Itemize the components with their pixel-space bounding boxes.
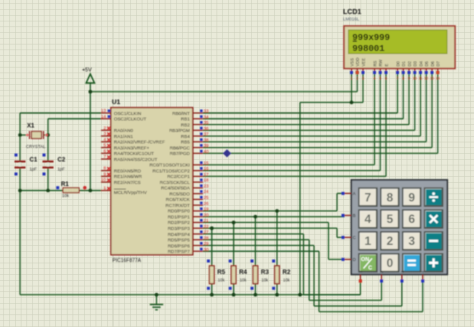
svg-text:7: 7 bbox=[397, 77, 399, 81]
svg-text:RS: RS bbox=[372, 60, 377, 66]
svg-text:RA2/AN2/VREF-/CVREF: RA2/AN2/VREF-/CVREF bbox=[114, 140, 165, 145]
svg-text:R2: R2 bbox=[283, 269, 291, 276]
svg-text:R3: R3 bbox=[261, 269, 269, 276]
svg-text:4: 4 bbox=[103, 137, 106, 142]
svg-text:RE0/AN5/RD: RE0/AN5/RD bbox=[114, 168, 142, 173]
svg-text:LM016L: LM016L bbox=[343, 17, 360, 22]
svg-text:R1: R1 bbox=[61, 182, 69, 188]
svg-text:OSC1/CLKIN: OSC1/CLKIN bbox=[114, 111, 141, 116]
svg-text:VDD: VDD bbox=[355, 58, 360, 67]
svg-text:RB5: RB5 bbox=[181, 140, 190, 145]
svg-text:C: C bbox=[353, 235, 356, 240]
svg-text:20: 20 bbox=[204, 212, 210, 217]
svg-text:RD3/PSP3: RD3/PSP3 bbox=[168, 226, 191, 231]
svg-text:24: 24 bbox=[204, 189, 210, 194]
svg-text:U1: U1 bbox=[112, 99, 121, 106]
svg-text:16: 16 bbox=[204, 166, 210, 171]
svg-text:RD0/PSP0: RD0/PSP0 bbox=[168, 209, 191, 214]
svg-text:23: 23 bbox=[204, 183, 210, 188]
svg-text:+5V: +5V bbox=[82, 68, 92, 74]
svg-text:CRYSTAL: CRYSTAL bbox=[26, 144, 46, 149]
svg-text:2: 2 bbox=[103, 125, 106, 130]
svg-text:RC7/RX/DT: RC7/RX/DT bbox=[166, 203, 190, 208]
svg-text:28: 28 bbox=[204, 235, 210, 240]
svg-text:RC5/SDO: RC5/SDO bbox=[169, 191, 190, 196]
svg-text:RD5/PSP5: RD5/PSP5 bbox=[168, 238, 191, 243]
svg-text:VEE: VEE bbox=[361, 58, 366, 67]
svg-text:4: 4 bbox=[421, 271, 425, 273]
svg-text:LCD1: LCD1 bbox=[343, 9, 361, 16]
svg-text:RC2/CCP1: RC2/CCP1 bbox=[167, 174, 190, 179]
svg-text:6: 6 bbox=[408, 212, 415, 226]
svg-text:25: 25 bbox=[204, 195, 210, 200]
svg-text:8: 8 bbox=[103, 166, 106, 171]
svg-text:2: 2 bbox=[356, 77, 358, 81]
svg-text:3: 3 bbox=[103, 131, 106, 136]
svg-text:36: 36 bbox=[204, 126, 210, 131]
svg-text:RA0/AN0: RA0/AN0 bbox=[114, 128, 134, 133]
svg-text:RE1/AN6/WR: RE1/AN6/WR bbox=[114, 174, 143, 179]
svg-text:10k: 10k bbox=[62, 193, 70, 198]
svg-text:10k: 10k bbox=[261, 278, 269, 283]
svg-text:RC0/T1OSO/T1CKI: RC0/T1OSO/T1CKI bbox=[149, 163, 189, 168]
svg-text:34: 34 bbox=[204, 114, 210, 119]
svg-text:A: A bbox=[353, 191, 356, 196]
svg-text:RB0/INT: RB0/INT bbox=[172, 111, 190, 116]
svg-text:14: 14 bbox=[436, 77, 440, 81]
svg-text:MCLR/Vpp/THV: MCLR/Vpp/THV bbox=[114, 190, 148, 195]
svg-text:D4: D4 bbox=[418, 60, 423, 66]
svg-text:8: 8 bbox=[386, 190, 393, 204]
svg-text:1pF: 1pF bbox=[58, 167, 66, 172]
svg-text:5: 5 bbox=[379, 77, 381, 81]
svg-text:RB4: RB4 bbox=[181, 134, 190, 139]
svg-text:D0: D0 bbox=[395, 60, 400, 66]
svg-text:4: 4 bbox=[374, 77, 376, 81]
svg-text:1: 1 bbox=[351, 77, 353, 81]
svg-text:15: 15 bbox=[204, 160, 210, 165]
svg-text:4: 4 bbox=[365, 212, 372, 226]
svg-text:29: 29 bbox=[204, 241, 210, 246]
svg-text:26: 26 bbox=[204, 201, 210, 206]
svg-text:RA3/AN3/VREF+: RA3/AN3/VREF+ bbox=[114, 145, 150, 150]
svg-text:999x999: 999x999 bbox=[352, 32, 390, 43]
svg-text:2: 2 bbox=[386, 234, 393, 248]
svg-text:14: 14 bbox=[101, 114, 107, 119]
svg-text:18: 18 bbox=[204, 178, 210, 183]
svg-text:10: 10 bbox=[413, 77, 417, 81]
svg-text:27: 27 bbox=[204, 230, 210, 235]
svg-text:6: 6 bbox=[385, 77, 387, 81]
svg-text:RD7/PSP7: RD7/PSP7 bbox=[168, 249, 191, 254]
svg-text:D3: D3 bbox=[413, 60, 418, 66]
svg-text:X1: X1 bbox=[27, 124, 35, 130]
svg-text:12: 12 bbox=[424, 77, 428, 81]
svg-text:9: 9 bbox=[408, 190, 415, 204]
svg-text:R4: R4 bbox=[239, 269, 247, 276]
svg-text:13: 13 bbox=[430, 77, 434, 81]
svg-text:3: 3 bbox=[362, 77, 364, 81]
svg-text:RW: RW bbox=[378, 60, 383, 67]
svg-text:RC6/TX/CK: RC6/TX/CK bbox=[166, 197, 191, 202]
svg-text:17: 17 bbox=[204, 172, 210, 177]
svg-text:9: 9 bbox=[408, 77, 410, 81]
svg-text:D: D bbox=[353, 257, 356, 262]
svg-text:RD2/PSP2: RD2/PSP2 bbox=[168, 220, 191, 225]
svg-text:9: 9 bbox=[103, 171, 106, 176]
svg-text:D7: D7 bbox=[436, 60, 441, 66]
svg-text:RC4/SDI/SDA: RC4/SDI/SDA bbox=[161, 186, 191, 191]
svg-text:RC1/T1OSI/CCP2: RC1/T1OSI/CCP2 bbox=[153, 168, 191, 173]
svg-text:1pF: 1pF bbox=[30, 167, 38, 172]
svg-text:RD6/PSP6: RD6/PSP6 bbox=[168, 243, 191, 248]
svg-text:0: 0 bbox=[386, 256, 393, 270]
svg-text:C: C bbox=[368, 266, 372, 272]
svg-text:39: 39 bbox=[204, 143, 210, 148]
svg-text:D5: D5 bbox=[424, 60, 429, 66]
svg-text:D2: D2 bbox=[407, 60, 412, 66]
svg-text:D1: D1 bbox=[401, 60, 406, 66]
svg-text:RB3/PGM: RB3/PGM bbox=[169, 128, 190, 133]
svg-text:10k: 10k bbox=[218, 278, 226, 283]
svg-text:RB2: RB2 bbox=[181, 122, 190, 127]
svg-text:998001: 998001 bbox=[352, 43, 385, 54]
svg-text:1: 1 bbox=[365, 234, 372, 248]
svg-text:22: 22 bbox=[204, 224, 210, 229]
svg-text:RD1/PSP1: RD1/PSP1 bbox=[168, 214, 191, 219]
svg-text:OSC2/CLKOUT: OSC2/CLKOUT bbox=[114, 117, 147, 122]
svg-text:2: 2 bbox=[380, 271, 384, 273]
svg-text:3: 3 bbox=[408, 234, 415, 248]
svg-text:19: 19 bbox=[204, 207, 210, 212]
svg-text:33: 33 bbox=[204, 109, 210, 114]
svg-text:30: 30 bbox=[204, 247, 210, 252]
svg-text:RB1: RB1 bbox=[181, 117, 190, 122]
svg-text:D6: D6 bbox=[430, 60, 435, 66]
svg-text:R5: R5 bbox=[217, 269, 225, 276]
svg-text:RB7/PGD: RB7/PGD bbox=[170, 151, 191, 156]
svg-text:B: B bbox=[353, 213, 356, 218]
svg-text:RA1/AN1: RA1/AN1 bbox=[114, 134, 134, 139]
svg-text:10k: 10k bbox=[283, 278, 291, 283]
svg-text:VSS: VSS bbox=[349, 58, 354, 67]
svg-text:10: 10 bbox=[101, 177, 107, 182]
svg-text:RE2/AN7/CS: RE2/AN7/CS bbox=[114, 180, 141, 185]
svg-text:RC3/SCK/SCL: RC3/SCK/SCL bbox=[160, 180, 191, 185]
svg-text:38: 38 bbox=[204, 137, 210, 142]
svg-text:RD4/PSP4: RD4/PSP4 bbox=[168, 232, 191, 237]
svg-text:7: 7 bbox=[365, 190, 372, 204]
svg-text:8: 8 bbox=[402, 77, 404, 81]
svg-text:1: 1 bbox=[359, 271, 363, 273]
svg-text:40: 40 bbox=[204, 149, 210, 154]
svg-text:37: 37 bbox=[204, 132, 210, 137]
svg-text:5: 5 bbox=[386, 212, 393, 226]
svg-text:1: 1 bbox=[103, 186, 106, 191]
svg-text:C1: C1 bbox=[30, 158, 38, 164]
svg-text:13: 13 bbox=[101, 108, 107, 113]
svg-text:5: 5 bbox=[103, 143, 106, 148]
svg-text:RA4/T0CKI/C1OUT: RA4/T0CKI/C1OUT bbox=[114, 151, 154, 156]
svg-text:3: 3 bbox=[400, 271, 404, 273]
svg-text:6: 6 bbox=[103, 148, 106, 153]
svg-text:RB6/PGC: RB6/PGC bbox=[170, 145, 191, 150]
svg-text:10k: 10k bbox=[240, 278, 248, 283]
svg-text:RA5/AN4/SS/C2OUT: RA5/AN4/SS/C2OUT bbox=[114, 157, 158, 162]
svg-text:E: E bbox=[384, 64, 389, 67]
svg-text:11: 11 bbox=[419, 77, 423, 81]
svg-text:C2: C2 bbox=[58, 158, 66, 164]
svg-text:35: 35 bbox=[204, 120, 210, 125]
svg-text:21: 21 bbox=[204, 218, 210, 223]
svg-text:PIC16F877A: PIC16F877A bbox=[112, 258, 141, 264]
svg-text:7: 7 bbox=[103, 154, 106, 159]
